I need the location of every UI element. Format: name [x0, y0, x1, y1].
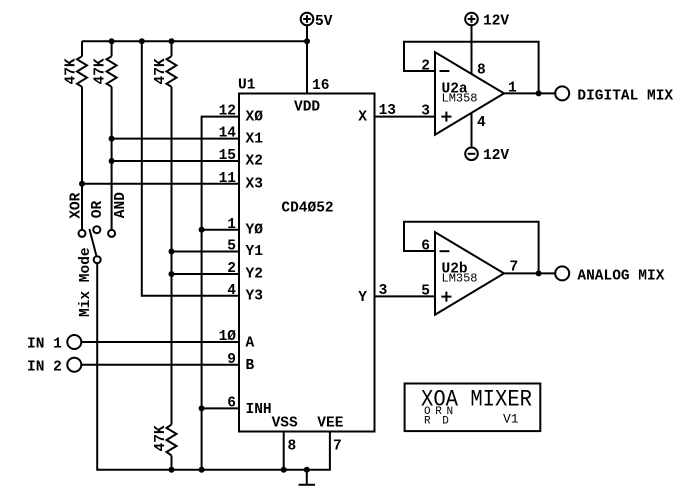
svg-text:47K: 47K [64, 58, 80, 84]
contact AND [108, 230, 115, 237]
svg-text:XOR: XOR [69, 192, 85, 218]
svg-text:VDD: VDD [294, 100, 320, 116]
wire Y1 [172, 251, 240, 253]
node junction R1/X3 [79, 181, 85, 187]
svg-text:5: 5 [421, 283, 430, 299]
power symbol +12V [465, 13, 509, 74]
terminal ANALOG MIX [555, 266, 665, 284]
svg-text:5V: 5V [315, 14, 333, 30]
svg-text:Y2: Y2 [246, 267, 263, 283]
wire switch common to ground rail [97, 263, 330, 470]
svg-text:X: X [358, 109, 367, 125]
wire X2 [112, 160, 239, 162]
node junction rail v3 [139, 38, 145, 44]
resistor R3 47K [153, 41, 177, 87]
node junction INH [199, 405, 205, 411]
node junction VSS ground rail [281, 467, 287, 473]
svg-text:7: 7 [333, 439, 342, 455]
wire VSS pin8 [283, 432, 285, 470]
svg-text:INH: INH [246, 402, 272, 418]
svg-text:12V: 12V [483, 148, 509, 164]
wire R3 down to R4 [171, 87, 173, 425]
terminal DIGITAL MIX [555, 86, 673, 104]
op-amp U2a [435, 52, 504, 135]
svg-text:CD4Ø52: CD4Ø52 [281, 201, 333, 217]
svg-text:8: 8 [288, 439, 297, 455]
svg-text:1: 1 [508, 80, 517, 96]
node junction R4 ground rail [169, 467, 175, 473]
resistor R4 47K bottom [153, 425, 177, 470]
svg-text:IN 2: IN 2 [27, 359, 62, 375]
svg-text:U1: U1 [238, 78, 256, 94]
terminal IN 1 [27, 335, 81, 353]
svg-text:ANALOG MIX: ANALOG MIX [577, 268, 664, 284]
wire Y to U2b [375, 295, 436, 297]
svg-text:6: 6 [421, 239, 430, 255]
node U2b output junction [536, 270, 542, 276]
svg-text:IN 1: IN 1 [27, 337, 62, 353]
wire U2a output [504, 92, 555, 94]
svg-text:YØ: YØ [246, 223, 264, 239]
wire Y2 [172, 273, 240, 275]
svg-text:7: 7 [510, 260, 519, 276]
node junction R2/X2 [109, 158, 115, 164]
svg-text:1: 1 [227, 217, 236, 233]
wire R2 to AND contact [111, 87, 113, 230]
svg-text:R: R [424, 415, 431, 427]
svg-text:Y: Y [358, 290, 367, 306]
wire X0 net (X0-Y0-INH vertical) [202, 117, 239, 470]
node junction R2 rail [109, 38, 115, 44]
wire X1 [112, 138, 239, 140]
svg-text:AND: AND [113, 192, 129, 218]
resistor R1 47K [64, 41, 88, 87]
svg-text:X3: X3 [246, 176, 263, 192]
svg-text:47K: 47K [93, 58, 109, 84]
wire +5V to Y3 [142, 41, 239, 295]
switch SW1 Mix Mode [69, 192, 130, 317]
svg-text:B: B [246, 358, 255, 374]
svg-text:LM358: LM358 [442, 272, 478, 286]
wire U2b output [504, 272, 555, 274]
svg-text:4: 4 [477, 115, 486, 131]
wire R1 to XOR contact [81, 87, 83, 230]
switch arm [89, 229, 96, 257]
node junction +5V rail pin16 [304, 38, 310, 44]
title block XOA MIXER V1 [405, 384, 541, 432]
node junction R2/X1 [109, 136, 115, 142]
contact OR [93, 226, 100, 233]
svg-text:3: 3 [421, 104, 430, 120]
wire X to U2a [375, 116, 436, 118]
node U2a output junction [536, 90, 542, 96]
svg-text:47K: 47K [153, 58, 169, 84]
svg-text:R: R [435, 406, 442, 418]
svg-text:12: 12 [219, 104, 236, 120]
node junction Y0 [199, 227, 205, 233]
svg-text:8: 8 [477, 63, 486, 79]
svg-text:4: 4 [227, 283, 236, 299]
svg-text:Y1: Y1 [246, 244, 264, 260]
svg-text:11: 11 [219, 171, 237, 187]
wire INH [202, 407, 239, 409]
contact XOR [79, 230, 86, 237]
node junction R3/Y1 [169, 249, 175, 255]
svg-text:OR: OR [90, 200, 106, 218]
node junction R3 rail [169, 38, 175, 44]
svg-text:1Ø: 1Ø [219, 329, 237, 345]
wire A input [81, 341, 239, 343]
svg-text:16: 16 [312, 78, 329, 94]
power symbol +5V [301, 13, 333, 94]
svg-text:D: D [442, 415, 449, 427]
switch common pole [94, 256, 101, 263]
svg-text:VEE: VEE [317, 416, 343, 432]
svg-text:14: 14 [219, 126, 237, 142]
svg-text:6: 6 [227, 396, 236, 412]
svg-text:Y3: Y3 [246, 289, 263, 305]
ground [299, 470, 316, 485]
node junction X0 net ground rail [199, 467, 205, 473]
svg-text:A: A [246, 335, 255, 351]
wire Y0 [202, 229, 239, 231]
svg-text:Mix Mode: Mix Mode [78, 247, 94, 317]
op-amp U2b [435, 232, 504, 315]
wire U2b feedback loop [404, 222, 539, 274]
svg-text:X2: X2 [246, 154, 263, 170]
node junction ground symbol rail [304, 467, 310, 473]
pin names U1 [246, 109, 368, 418]
svg-text:VSS: VSS [272, 416, 298, 432]
wire B input [81, 364, 239, 366]
svg-text:LM358: LM358 [442, 92, 478, 106]
svg-text:9: 9 [227, 352, 236, 368]
node junction R3/Y2 [169, 271, 175, 277]
IC U1 CD4052 [238, 78, 375, 432]
wire U2a feedback loop [404, 42, 539, 94]
svg-text:5: 5 [227, 239, 236, 255]
svg-text:V1: V1 [503, 411, 519, 426]
svg-text:DIGITAL MIX: DIGITAL MIX [577, 88, 673, 104]
svg-text:XØ: XØ [246, 109, 264, 125]
svg-text:2: 2 [227, 261, 236, 277]
resistor R2 47K [93, 41, 117, 87]
power symbol -12V [465, 114, 509, 165]
svg-text:15: 15 [219, 148, 236, 164]
pin numbers U1 left [219, 104, 237, 412]
svg-text:X1: X1 [246, 131, 264, 147]
svg-text:2: 2 [421, 59, 430, 75]
wire +5V top rail [82, 40, 307, 42]
svg-text:12V: 12V [483, 13, 509, 29]
wire X3 [82, 183, 239, 185]
terminal IN 2 [27, 358, 81, 376]
svg-text:47K: 47K [153, 425, 169, 451]
